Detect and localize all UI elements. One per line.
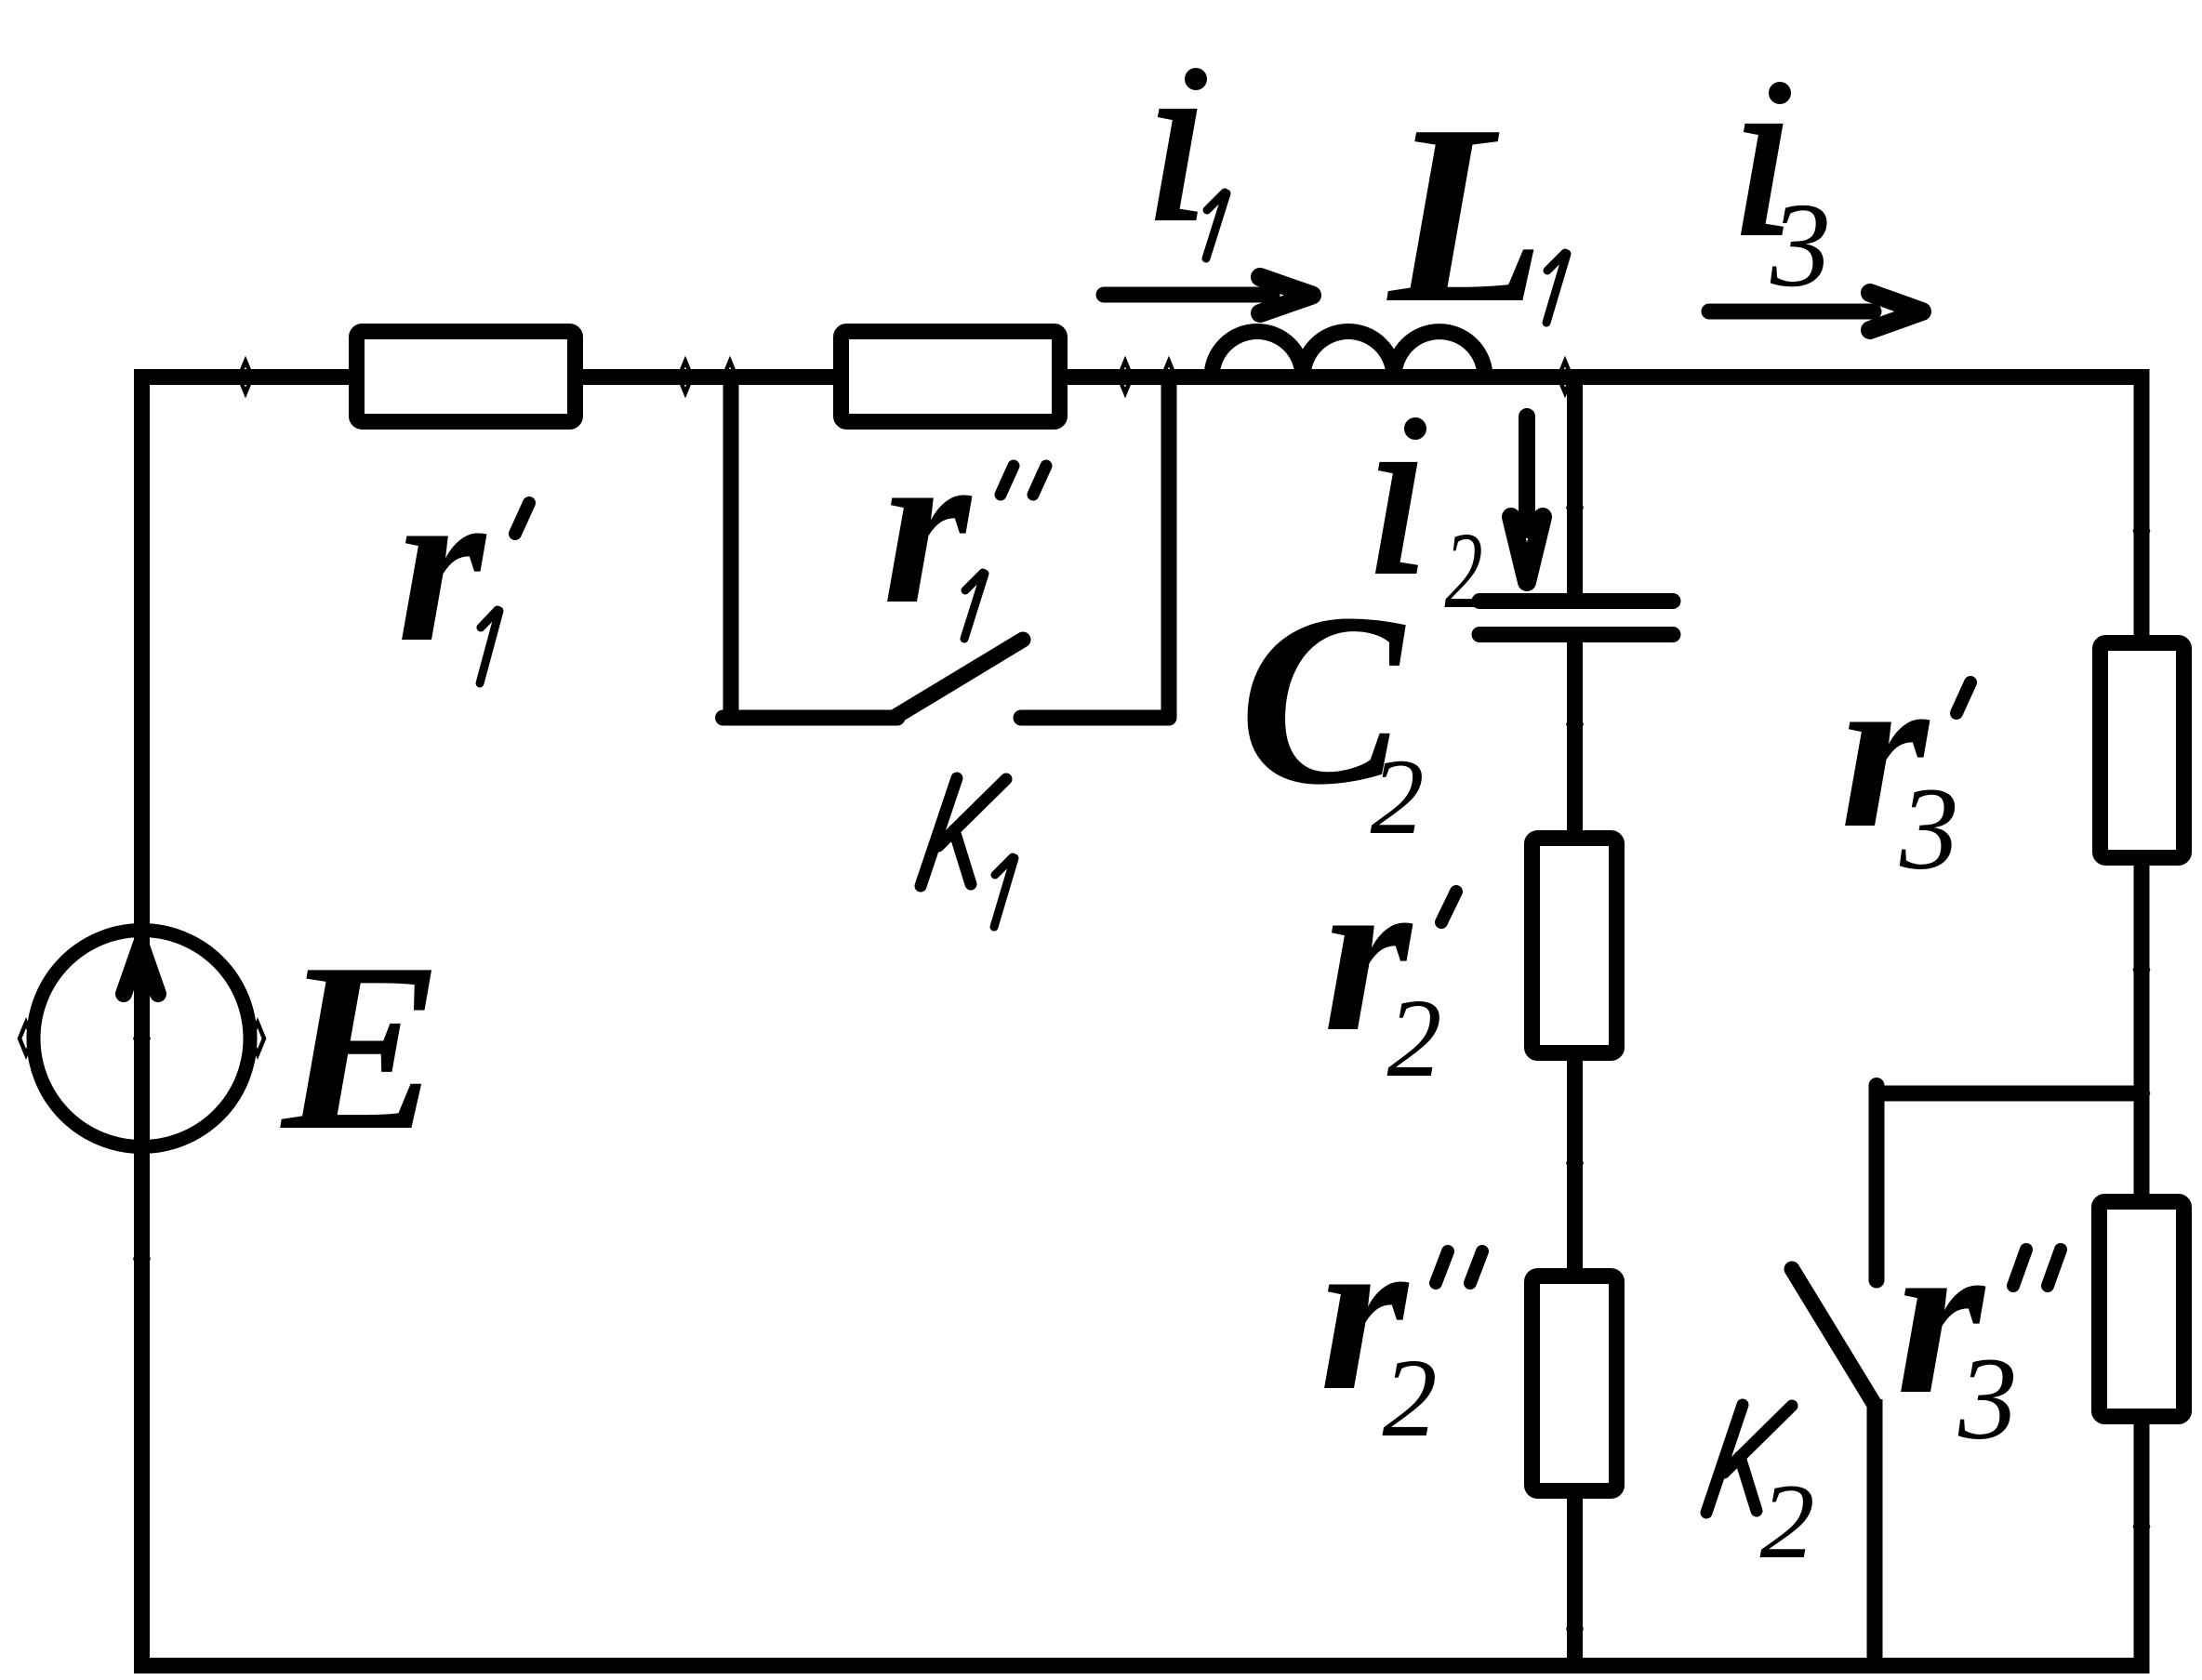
node diamond E circle left xyxy=(20,1023,33,1054)
label i2 dot xyxy=(1404,417,1426,440)
arrow i1 shaft xyxy=(1104,287,1272,303)
svg-text:2: 2 xyxy=(1445,509,1483,631)
node diamond left wire below E xyxy=(136,1243,149,1275)
resistor r2 double prime (vertical box) xyxy=(1532,1277,1617,1491)
node diamond E circle right xyxy=(251,1023,264,1054)
resistor r3 double prime (vertical box) xyxy=(2100,1202,2184,1417)
node diamond top wire d xyxy=(1119,362,1132,393)
arrow i3 head xyxy=(1870,293,1922,330)
label K2 letter K xyxy=(1706,1405,1792,1513)
node diamond top wire e xyxy=(1162,362,1175,393)
svg-text:2: 2 xyxy=(1760,1462,1815,1581)
wire below r2'' to bottom rail xyxy=(1567,1492,1583,1665)
arrow i2 head xyxy=(1511,517,1543,582)
label K1 subscript 1 xyxy=(994,857,1015,927)
wire K1 bypass right leg xyxy=(1161,377,1177,719)
label i1 subscript 1 xyxy=(1206,192,1227,258)
capacitor C2 bottom plate xyxy=(1479,627,1673,642)
wire K1 bypass bottom-right segment xyxy=(1021,710,1169,726)
node diamond top wire c xyxy=(723,362,736,393)
svg-text:3: 3 xyxy=(1957,1334,2018,1464)
node diamond top wire a xyxy=(239,362,252,393)
node diamond capacitor branch a xyxy=(1569,492,1582,523)
node diamond capacitor branch b xyxy=(1569,708,1582,740)
label r2 prime mark xyxy=(1441,892,1456,922)
wire K2 lower leg to bottom rail xyxy=(1867,1399,1883,1665)
label L1 subscript 1 xyxy=(1546,253,1567,323)
node diamond right wire c xyxy=(2135,1511,2148,1542)
source E circle xyxy=(33,931,250,1147)
wire K2 upper leg xyxy=(1869,1086,1885,1281)
source E arrowhead xyxy=(124,945,158,994)
svg-text:r: r xyxy=(882,400,973,651)
label r1 double prime marks xyxy=(1001,466,1046,495)
switch K1 blade xyxy=(894,640,1023,718)
wire K1 bypass left leg xyxy=(723,377,739,719)
label r1 prime subscript 1 xyxy=(480,610,499,683)
label r3 double prime marks xyxy=(2013,1250,2061,1286)
label r1 prime mark xyxy=(515,503,529,534)
node diamond right wire a xyxy=(2135,515,2148,547)
svg-text:E: E xyxy=(278,914,443,1181)
resistor r3 prime (vertical box) xyxy=(2101,643,2184,858)
resistor r2 prime (vertical box) xyxy=(1532,839,1617,1053)
label r1 double prime subscript 1 xyxy=(964,573,985,639)
node diamond E circle center xyxy=(136,1023,149,1054)
capacitor C2 top plate xyxy=(1479,593,1673,609)
label K1 letter K xyxy=(921,778,1006,886)
svg-text:2: 2 xyxy=(1387,976,1442,1101)
node diamond top wire b xyxy=(679,362,692,393)
label i3 dot xyxy=(1769,82,1791,104)
node diamond right wire b xyxy=(2135,954,2148,986)
label r2 double prime marks xyxy=(1436,1251,1482,1283)
svg-text:r: r xyxy=(397,438,487,689)
node diamond capacitor branch c xyxy=(1569,1147,1582,1179)
label i1 dot xyxy=(1185,68,1207,90)
arrow i3 shaft xyxy=(1709,304,1874,320)
wire capacitor branch lower segment to r2' xyxy=(1567,638,1583,841)
node diamond right wire at K2 branch xyxy=(2135,1078,2148,1109)
inductor L1 xyxy=(1212,331,1485,377)
arrow i1 head xyxy=(1260,277,1312,313)
label r3 prime mark xyxy=(1957,682,1970,713)
svg-text:2: 2 xyxy=(1383,1336,1438,1461)
wire between r2' and r2'' xyxy=(1567,1055,1583,1274)
svg-text:L: L xyxy=(1385,72,1545,356)
resistor r1 prime (horizontal box) xyxy=(357,332,576,422)
svg-text:3: 3 xyxy=(1770,179,1831,312)
wire K1 bypass bottom-left segment xyxy=(723,710,898,726)
node diamond top wire f (capacitor junction) xyxy=(1559,362,1572,393)
node diamond capacitor branch d xyxy=(1569,1613,1582,1645)
wire K2 branch horizontal from right rail xyxy=(1877,1086,2142,1102)
wire capacitor branch upper segment xyxy=(1567,377,1583,596)
resistor r1 double prime (horizontal box) xyxy=(842,332,1060,422)
wire outer loop (top, left, bottom, right rails) xyxy=(142,377,2142,1666)
switch K2 blade xyxy=(1792,1269,1875,1405)
arrow i2 shaft xyxy=(1519,417,1535,530)
svg-text:ı: ı xyxy=(1145,9,1210,270)
svg-text:3: 3 xyxy=(1899,764,1959,894)
